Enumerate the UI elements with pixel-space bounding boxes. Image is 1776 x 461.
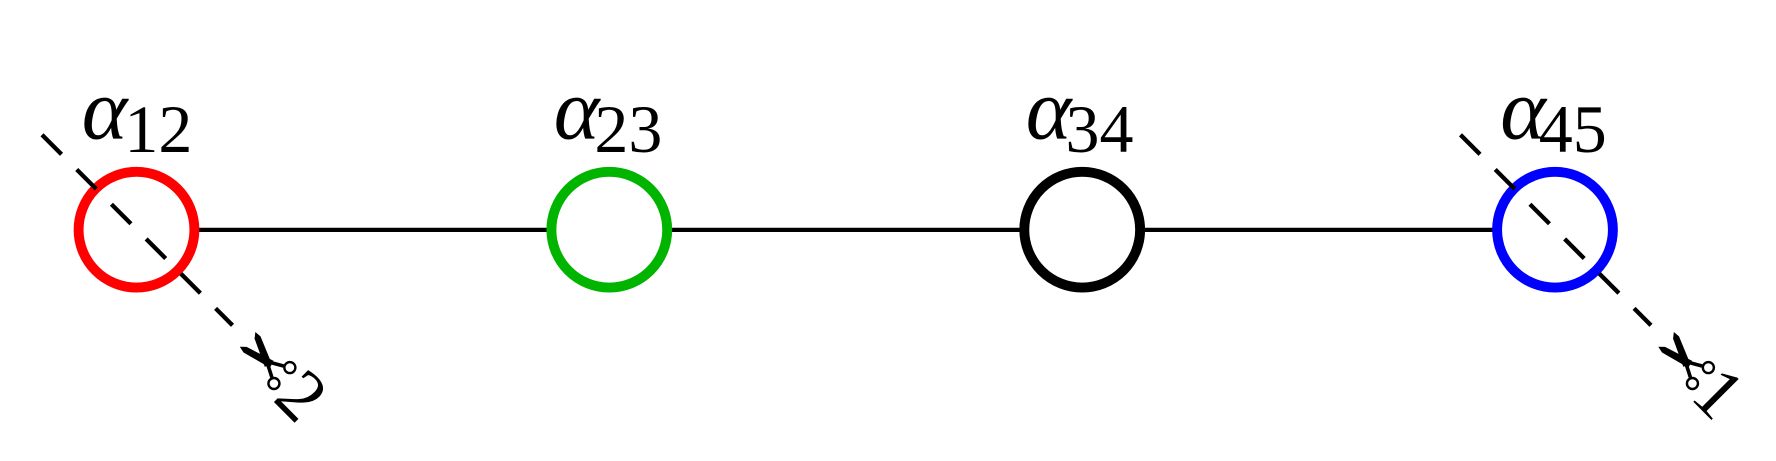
node alpha23 (green circle) — [551, 172, 667, 288]
wire node2-node3 — [609, 228, 1082, 232]
node alpha45 (blue circle) — [1497, 172, 1613, 288]
svg-text:45: 45 — [1539, 91, 1607, 167]
dashed cut line through node alpha45 — [1461, 135, 1652, 325]
svg-text:34: 34 — [1066, 91, 1134, 167]
label 2 (rotated) on left cut line — [260, 354, 343, 437]
svg-text:23: 23 — [594, 91, 662, 167]
wire node1-node2 — [137, 228, 610, 232]
svg-text:12: 12 — [124, 91, 192, 167]
svg-text:α: α — [82, 61, 130, 158]
scissors on left cut line — [235, 328, 298, 391]
scissors on right cut line — [1653, 328, 1716, 391]
label 1 (rotated) on right cut line — [1677, 351, 1760, 434]
dashed cut line through node alpha12 — [42, 135, 233, 325]
node alpha12 (red circle) — [79, 172, 195, 288]
node alpha34 (black circle) — [1024, 172, 1140, 288]
wire node3-node4 — [1082, 228, 1555, 232]
